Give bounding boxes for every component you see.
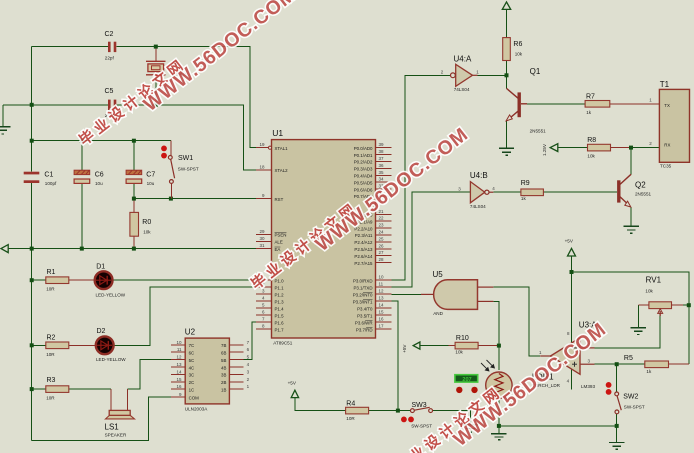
wire 1.25V terminal to R8 <box>558 147 588 149</box>
svg-text:2C: 2C <box>189 380 195 385</box>
resistor R3 <box>46 377 69 400</box>
svg-text:16: 16 <box>176 384 182 389</box>
svg-text:C5: C5 <box>105 88 114 95</box>
svg-text:10k: 10k <box>455 349 463 354</box>
svg-text:15: 15 <box>176 377 182 382</box>
wire crystal bottom link <box>155 75 157 105</box>
svg-text:10u: 10u <box>95 181 103 186</box>
svg-text:D2: D2 <box>97 328 106 335</box>
svg-text:11: 11 <box>177 347 182 352</box>
svg-text:SPEAKER: SPEAKER <box>105 433 127 438</box>
wire RV1 left to ground <box>637 305 639 327</box>
svg-text:P1.7: P1.7 <box>275 327 285 332</box>
op-amp U3:A (LM393, facing left) <box>539 320 597 389</box>
wire R10 right lead <box>448 345 499 347</box>
svg-text:P3.7/RD: P3.7/RD <box>356 327 373 332</box>
svg-text:P2.3/A11: P2.3/A11 <box>355 233 373 238</box>
resistor R6 <box>503 38 523 61</box>
svg-text:R8: R8 <box>587 137 596 144</box>
wire R10 node to LDR top <box>498 346 500 370</box>
wire RV1 right to +5V rail <box>683 304 689 306</box>
svg-text:P0.1/AD1: P0.1/AD1 <box>354 153 373 158</box>
svg-text:U4:B: U4:B <box>470 171 488 180</box>
IC U2 ULN2003A <box>171 328 250 412</box>
svg-text:C2: C2 <box>105 31 114 38</box>
svg-text:P2.6/A14: P2.6/A14 <box>354 254 373 259</box>
svg-text:17: 17 <box>379 324 385 329</box>
svg-text:P3.2/INT0: P3.2/INT0 <box>353 292 373 297</box>
torch brightness display (green box 207) <box>455 375 478 393</box>
wire XTAL1 net (C2 top rail to U1 XTAL1) <box>32 47 256 148</box>
wire R0 stubs <box>133 199 135 249</box>
wire op-amp V+ pin <box>571 272 573 344</box>
svg-text:P0.2/AD2: P0.2/AD2 <box>354 160 373 165</box>
svg-text:18: 18 <box>259 164 265 169</box>
svg-text:30: 30 <box>259 236 265 241</box>
svg-text:38: 38 <box>379 149 385 154</box>
svg-text:31: 31 <box>259 243 265 248</box>
svg-text:LM393: LM393 <box>581 384 595 389</box>
svg-text:10R: 10R <box>346 416 355 421</box>
ground (under Q2) <box>624 226 639 233</box>
svg-text:10k: 10k <box>515 52 523 57</box>
svg-text:Q1: Q1 <box>530 67 541 76</box>
svg-text:5C: 5C <box>189 358 195 363</box>
LDR1 (torch LDR) <box>481 360 561 398</box>
watermark block 2 (center) <box>247 123 472 293</box>
svg-text:R9: R9 <box>521 180 530 187</box>
svg-text:7C: 7C <box>189 343 195 348</box>
wire U4:A input to Q1 collector node <box>473 74 507 76</box>
svg-text:+5V: +5V <box>402 344 407 353</box>
svg-text:10R: 10R <box>46 396 55 401</box>
capacitor C2 <box>105 31 117 60</box>
capacitor C6 (electrolytic) <box>74 170 104 186</box>
wire Q1 base to R7 <box>521 103 585 105</box>
wire R10 left to +5V arrow terminal <box>420 345 449 347</box>
capacitor C5 <box>105 88 117 118</box>
svg-text:P1.3: P1.3 <box>275 299 285 304</box>
svg-text:P2.5/A13: P2.5/A13 <box>354 247 373 252</box>
svg-text:10: 10 <box>379 275 385 280</box>
svg-text:1k: 1k <box>521 196 527 201</box>
svg-text:RV1: RV1 <box>646 276 662 285</box>
wire R9 to Q2 base <box>543 191 617 193</box>
svg-text:SW-SPST: SW-SPST <box>624 404 645 409</box>
wire U4:B output to R9 <box>489 191 521 193</box>
svg-text:R0: R0 <box>142 219 151 226</box>
wire XTAL2 net (ground rail through C5 to U1 XTAL2) <box>3 105 256 170</box>
wire SW2 bottom to ground <box>616 414 618 442</box>
svg-text:100pf: 100pf <box>45 181 57 186</box>
LED D2 (LED-YELLOW) <box>96 328 126 362</box>
svg-text:P0.5/AD5: P0.5/AD5 <box>354 180 373 185</box>
resistor R10 <box>455 335 478 355</box>
wire R1 to P1.0 <box>32 279 256 281</box>
svg-text:1B: 1B <box>221 387 226 392</box>
svg-text:P1.1: P1.1 <box>275 285 285 290</box>
transformer/module T1 TC35 <box>649 80 689 169</box>
svg-text:U5: U5 <box>433 270 444 279</box>
svg-text:11: 11 <box>379 282 384 287</box>
wire R6 bottom to collector node <box>506 61 508 89</box>
ground (right of SW3) <box>463 425 478 432</box>
capacitor C1 <box>24 171 57 186</box>
svg-text:EA: EA <box>275 247 281 252</box>
svg-text:4C: 4C <box>189 365 195 370</box>
resistor R9 <box>521 180 544 201</box>
svg-text:+5V: +5V <box>565 239 574 244</box>
switch SW3 <box>401 402 433 429</box>
U1 right pin stubs <box>376 148 392 330</box>
capacitor C7 (electrolytic) <box>126 170 155 186</box>
svg-text:39: 39 <box>379 142 385 147</box>
svg-text:12: 12 <box>379 289 385 294</box>
wire speaker to U2 5C <box>128 360 172 389</box>
svg-text:RX: RX <box>664 142 670 147</box>
svg-text:AND: AND <box>433 311 443 316</box>
svg-text:SW3: SW3 <box>412 402 427 409</box>
svg-text:2N5551: 2N5551 <box>530 129 547 134</box>
svg-text:24: 24 <box>379 230 385 235</box>
wire Q2 emitter to ground <box>630 207 632 226</box>
svg-text:P1.5: P1.5 <box>275 313 285 318</box>
wire U2 COM to bottom bus <box>32 397 171 440</box>
wire left ground stem <box>2 105 4 127</box>
svg-text:P0.6/AD6: P0.6/AD6 <box>354 187 373 192</box>
wire U5 input A to op-amp output <box>493 287 540 356</box>
inverter U4:A (74LS04) <box>441 55 479 92</box>
ground (under SW2) <box>609 443 624 450</box>
resistor R7 <box>585 93 610 115</box>
svg-text:29: 29 <box>259 229 265 234</box>
wire P3.0 to U4:A output <box>392 75 451 280</box>
svg-text:R1: R1 <box>47 269 56 276</box>
switch SW2 <box>606 382 645 414</box>
wire crystal top link <box>155 47 157 62</box>
terminal 1.25V (left arrow near R8) <box>542 143 558 156</box>
svg-text:37: 37 <box>379 156 385 161</box>
svg-text:12: 12 <box>176 355 182 360</box>
svg-text:P3.5/T1: P3.5/T1 <box>357 313 373 318</box>
power +5V terminal (left arrow at R10) <box>402 342 420 353</box>
svg-text:25: 25 <box>379 236 385 241</box>
watermark block 1 (top-left) <box>75 0 300 149</box>
speaker LS1 <box>105 389 135 438</box>
svg-text:Q2: Q2 <box>635 180 646 189</box>
svg-text:P1.6: P1.6 <box>275 320 285 325</box>
svg-text:R6: R6 <box>513 41 522 48</box>
svg-text:7B: 7B <box>221 343 226 348</box>
svg-text:D1: D1 <box>96 264 105 271</box>
ground terminal arrow (EA rail, left) <box>1 245 8 253</box>
svg-text:10R: 10R <box>46 352 55 357</box>
svg-text:U4:A: U4:A <box>454 55 472 64</box>
wire P1.6 to U2 5B <box>244 322 256 360</box>
svg-text:1.25V: 1.25V <box>542 143 547 156</box>
wire Q2 collector riser <box>630 148 632 175</box>
svg-text:U2: U2 <box>185 328 196 337</box>
svg-text:2B: 2B <box>221 380 226 385</box>
wire R2 to D2 to P1.1 <box>32 287 256 345</box>
wire left bus x=31.7 <box>31 105 33 441</box>
svg-text:74LS04: 74LS04 <box>470 204 486 209</box>
svg-text:P1.4: P1.4 <box>275 306 285 311</box>
wire SW1 top rail y=140.7 <box>32 140 171 142</box>
svg-text:C6: C6 <box>95 171 104 178</box>
switch SW1 <box>161 141 199 199</box>
svg-text:2N5551: 2N5551 <box>635 192 652 197</box>
wire +5V arrow to rail <box>572 256 689 364</box>
wire SW3 to ground <box>432 411 470 425</box>
svg-text:C1: C1 <box>44 171 53 178</box>
svg-text:10k: 10k <box>143 230 151 235</box>
svg-text:SW1: SW1 <box>178 155 193 162</box>
svg-text:T1: T1 <box>660 80 670 89</box>
svg-text:1k: 1k <box>586 110 592 115</box>
svg-text:27: 27 <box>379 250 385 255</box>
svg-text:5B: 5B <box>221 358 226 363</box>
svg-text:14: 14 <box>379 303 385 308</box>
svg-text:C7: C7 <box>146 171 155 178</box>
svg-text:COM: COM <box>189 396 200 401</box>
svg-text:26: 26 <box>379 243 385 248</box>
svg-text:TX: TX <box>664 103 670 108</box>
wire RST net y=198.6 <box>134 198 256 200</box>
wire R4 to SW3 <box>369 410 411 412</box>
svg-text:P3.6/WR: P3.6/WR <box>355 320 373 325</box>
resistor R8 <box>587 137 610 159</box>
resistor R5 <box>624 355 669 374</box>
wire +5V terminal to R4 <box>295 398 346 411</box>
svg-text:28: 28 <box>379 257 385 262</box>
U1 left pin stubs <box>256 148 272 330</box>
svg-text:P3.1/TXD: P3.1/TXD <box>353 285 372 290</box>
wire R8 to T1 pin2 <box>611 147 660 149</box>
wire P3.2 to U5 output <box>392 293 422 295</box>
svg-text:R4: R4 <box>346 401 355 408</box>
svg-text:22pf: 22pf <box>105 55 115 60</box>
wire R5 to +5V rail <box>669 363 689 365</box>
resistor R4 <box>346 401 369 421</box>
svg-text:RST: RST <box>275 197 284 202</box>
svg-text:ALE: ALE <box>275 240 283 245</box>
ground (left edge, near C5 rail) <box>0 127 10 134</box>
wire C7 leads <box>133 141 135 199</box>
svg-text:13: 13 <box>176 362 182 367</box>
wire op-amp V- pin <box>571 369 573 390</box>
ground (under RV1 left lead) <box>631 328 646 335</box>
svg-text:TC35: TC35 <box>660 164 672 169</box>
svg-text:6B: 6B <box>221 351 226 356</box>
svg-text:1C: 1C <box>189 387 195 392</box>
wire R6 top to power arrow <box>506 9 508 37</box>
svg-text:10R: 10R <box>46 287 55 292</box>
AND gate U5 <box>421 270 493 316</box>
svg-text:P1.2: P1.2 <box>275 292 285 297</box>
svg-text:LED-YELLOW: LED-YELLOW <box>96 293 126 298</box>
wire op-amp inverting input to RV1 wiper <box>580 314 660 348</box>
svg-text:74LS04: 74LS04 <box>454 87 470 92</box>
svg-text:R10: R10 <box>456 335 469 342</box>
U1 right pin numbers <box>379 142 385 329</box>
svg-text:207: 207 <box>462 377 471 383</box>
resistor R0 <box>130 212 151 236</box>
wire R7 to T1 pin1 <box>610 103 660 105</box>
svg-text:SW-SPST: SW-SPST <box>178 166 199 171</box>
svg-text:6C: 6C <box>189 351 195 356</box>
svg-text:P3.0/RXD: P3.0/RXD <box>353 278 373 283</box>
svg-text:3C: 3C <box>189 373 195 378</box>
wire op-amp non-inverting input node to R5 <box>580 363 645 365</box>
svg-text:P2.4/A12: P2.4/A12 <box>354 240 373 245</box>
ground (under Q1) <box>499 148 514 155</box>
svg-text:AT89C51: AT89C51 <box>273 340 293 345</box>
wire C6 leads <box>81 141 83 249</box>
power +5V terminal (near R4) <box>288 381 299 398</box>
svg-text:R3: R3 <box>47 377 56 384</box>
svg-text:P3.3/INT1: P3.3/INT1 <box>353 299 373 304</box>
svg-text:+5V: +5V <box>288 381 297 386</box>
MCU U1 AT89C51 body <box>272 128 376 345</box>
svg-text:R2: R2 <box>47 334 56 341</box>
svg-text:35: 35 <box>379 170 385 175</box>
svg-text:R5: R5 <box>624 355 633 362</box>
svg-text:SW2: SW2 <box>623 393 638 400</box>
svg-text:10k: 10k <box>645 289 653 294</box>
transistor Q2 (2N5551) <box>619 174 652 207</box>
inverter U4:B (74LS04) <box>458 171 495 209</box>
svg-text:19: 19 <box>259 142 265 147</box>
U1 pin XTAL1 circle <box>268 146 271 149</box>
watermark block 3 (bottom-right) <box>391 318 610 453</box>
crystal X1 12MHz <box>146 59 187 76</box>
power +5V terminal (above op-amp) <box>565 239 576 256</box>
wire LDR bottom to ground and SW2 rail <box>499 400 617 434</box>
svg-text:10: 10 <box>176 340 182 345</box>
svg-text:4B: 4B <box>221 365 226 370</box>
svg-text:13: 13 <box>379 296 385 301</box>
svg-text:10u: 10u <box>147 181 155 186</box>
svg-text:P3.4/T0: P3.4/T0 <box>357 306 373 311</box>
U1 left pin numbers <box>259 142 265 329</box>
power arrow (top of R6) <box>502 2 510 9</box>
svg-text:P0.0/AD0: P0.0/AD0 <box>354 146 373 151</box>
svg-text:23: 23 <box>379 223 385 228</box>
wire Q1 emitter to ground <box>506 121 508 148</box>
svg-text:1k: 1k <box>646 369 652 374</box>
resistor R2 <box>46 334 69 357</box>
svg-text:P2.7/A15: P2.7/A15 <box>354 261 373 266</box>
svg-text:PSEN: PSEN <box>275 233 287 238</box>
resistor R1 <box>46 269 69 292</box>
wire SW2 top <box>616 364 618 392</box>
svg-text:15: 15 <box>379 310 385 315</box>
svg-text:3B: 3B <box>221 373 226 378</box>
svg-text:34: 34 <box>379 177 385 182</box>
svg-text:36: 36 <box>379 163 385 168</box>
svg-text:LS1: LS1 <box>105 422 120 431</box>
svg-text:10k: 10k <box>587 153 595 158</box>
svg-text:R7: R7 <box>586 93 595 100</box>
svg-text:SW-SPST: SW-SPST <box>411 423 432 428</box>
wire P3.3 down to R4/SW3 node <box>392 301 398 410</box>
potentiometer RV1 <box>638 276 683 316</box>
svg-text:LED-YELLOW: LED-YELLOW <box>96 357 126 362</box>
wire P3.1 to U4:B input <box>392 192 471 287</box>
U1 left pin names <box>275 146 289 333</box>
wire R3 to speaker <box>32 388 112 390</box>
LED D1 (LED-YELLOW) <box>95 264 126 298</box>
wire U5 input B down to R10 node <box>493 301 499 345</box>
svg-text:P0.4/AD4: P0.4/AD4 <box>354 174 373 179</box>
svg-text:P0.3/AD3: P0.3/AD3 <box>354 167 373 172</box>
svg-text:XTAL2: XTAL2 <box>275 168 289 173</box>
svg-text:14: 14 <box>176 369 182 374</box>
svg-text:ULN2003A: ULN2003A <box>185 407 208 412</box>
svg-text:22: 22 <box>379 216 385 221</box>
svg-text:U1: U1 <box>272 128 283 138</box>
U1 right pin names <box>353 146 373 333</box>
transistor Q1 (2N5551) <box>506 67 546 134</box>
svg-text:16: 16 <box>379 317 385 322</box>
ground (under LDR) <box>491 434 506 440</box>
svg-text:XTAL1: XTAL1 <box>275 146 289 151</box>
wire EA net y=248.6 <box>2 248 256 250</box>
